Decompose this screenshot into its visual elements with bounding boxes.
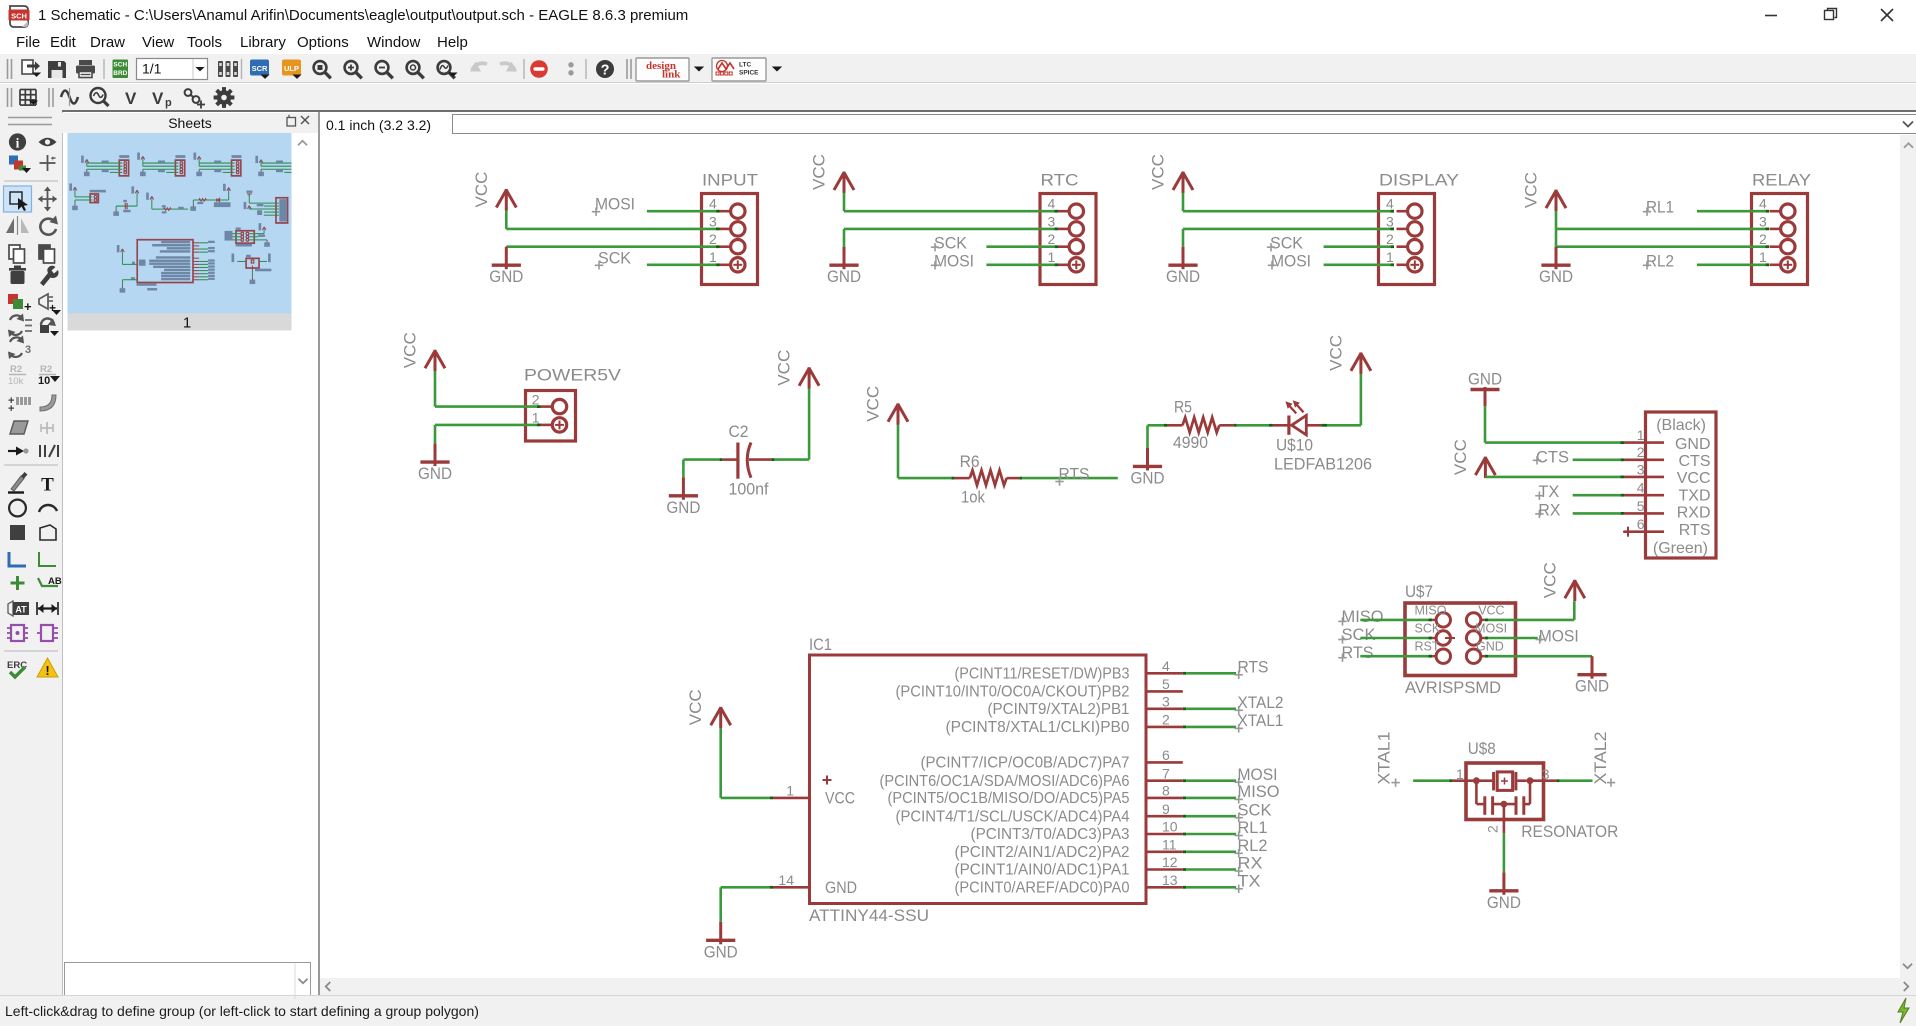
svg-text:1: 1	[709, 249, 717, 265]
svg-text:RX: RX	[1538, 500, 1560, 519]
svg-text:VCC: VCC	[1149, 154, 1168, 190]
svg-text:RST: RST	[1415, 640, 1440, 654]
svg-text:?: ?	[601, 63, 610, 79]
svg-text:GND: GND	[704, 942, 738, 961]
svg-text:12: 12	[1162, 854, 1178, 870]
svg-text:MOSI: MOSI	[595, 195, 635, 214]
svg-text:VCC: VCC	[1540, 562, 1559, 598]
svg-text:SCH: SCH	[113, 62, 127, 69]
svg-text:3: 3	[1386, 213, 1394, 229]
svg-text:AVRISPSMD: AVRISPSMD	[1405, 678, 1501, 697]
svg-text:(PCINT4/T1/SCL/USCK/ADC4)PA4: (PCINT4/T1/SCL/USCK/ADC4)PA4	[896, 808, 1130, 825]
svg-text:GND: GND	[1468, 369, 1502, 388]
svg-text:INPUT: INPUT	[702, 171, 758, 190]
svg-text:XTAL1: XTAL1	[1375, 732, 1394, 785]
svg-text:SCK: SCK	[1238, 800, 1273, 819]
svg-text:(PCINT11/RESET/DW)PB3: (PCINT11/RESET/DW)PB3	[955, 666, 1130, 683]
svg-text:4: 4	[1386, 196, 1394, 212]
svg-text:GND: GND	[825, 878, 857, 897]
svg-text:R5: R5	[1174, 398, 1192, 417]
svg-text:1: 1	[1759, 249, 1767, 265]
svg-text:XTAL1: XTAL1	[1238, 711, 1284, 730]
svg-text:RTS: RTS	[1059, 464, 1090, 483]
svg-text:R6: R6	[960, 452, 980, 471]
svg-text:SPICE: SPICE	[739, 70, 759, 77]
svg-text:1: 1	[532, 410, 540, 426]
svg-text:i: i	[16, 136, 20, 151]
svg-text:6: 6	[1637, 516, 1645, 532]
svg-text:RELAY: RELAY	[1752, 171, 1811, 190]
svg-text:GND: GND	[418, 464, 452, 483]
svg-text:(PCINT10/INT0/OC0A/CKOUT)PB2: (PCINT10/INT0/OC0A/CKOUT)PB2	[896, 684, 1130, 701]
svg-text:11: 11	[1162, 836, 1177, 852]
svg-text:5: 5	[1162, 676, 1170, 692]
svg-text:(PCINT8/XTAL1/CLKI)PB0: (PCINT8/XTAL1/CLKI)PB0	[946, 719, 1130, 736]
svg-text:RTS: RTS	[1342, 643, 1374, 662]
svg-text:link: link	[662, 69, 681, 81]
svg-text:9: 9	[1162, 801, 1170, 817]
svg-text:BRD: BRD	[113, 70, 127, 77]
svg-text:2: 2	[1162, 712, 1170, 728]
svg-text:ULP: ULP	[284, 64, 299, 73]
svg-text:MOSI: MOSI	[1539, 627, 1579, 646]
svg-text:XTAL2: XTAL2	[1591, 732, 1610, 785]
svg-text:VCC: VCC	[1326, 335, 1345, 371]
svg-text:GND: GND	[1487, 893, 1521, 912]
svg-text:LEDFAB1206: LEDFAB1206	[1274, 454, 1372, 473]
svg-text:RX: RX	[1238, 854, 1263, 873]
svg-text:VCC: VCC	[1478, 603, 1504, 617]
svg-text:MOSI: MOSI	[1475, 621, 1507, 635]
svg-text:4: 4	[1162, 658, 1170, 674]
svg-text:RTS: RTS	[1238, 658, 1269, 677]
svg-text:4: 4	[1048, 196, 1056, 212]
svg-text:13: 13	[1162, 872, 1178, 888]
svg-text:+: +	[51, 154, 56, 163]
svg-text:p: p	[165, 97, 172, 109]
svg-text:(Green): (Green)	[1653, 540, 1708, 557]
svg-text:TXD: TXD	[1679, 487, 1711, 504]
svg-text:4: 4	[1759, 196, 1767, 212]
svg-text:VCC: VCC	[1677, 470, 1711, 487]
svg-text:RL1: RL1	[1646, 197, 1674, 216]
svg-text:TX: TX	[1238, 872, 1261, 891]
svg-text:2: 2	[1759, 231, 1767, 247]
svg-text:7: 7	[1162, 765, 1170, 781]
svg-text:(PCINT7/ICP/OC0B/ADC7)PA7: (PCINT7/ICP/OC0B/ADC7)PA7	[921, 755, 1130, 772]
svg-text:RXD: RXD	[1677, 505, 1711, 522]
svg-text:U$10: U$10	[1276, 435, 1313, 454]
svg-text:GND: GND	[827, 267, 861, 286]
svg-text:VCC: VCC	[810, 154, 829, 190]
svg-text:1/1: 1/1	[142, 61, 162, 77]
svg-text:10k: 10k	[8, 376, 24, 387]
svg-text:!: !	[45, 663, 49, 678]
svg-text:VCC: VCC	[1451, 439, 1470, 475]
svg-text:R2: R2	[40, 364, 52, 375]
svg-text:3: 3	[25, 344, 31, 356]
svg-text:1: 1	[786, 783, 794, 799]
svg-text:2: 2	[1386, 231, 1394, 247]
svg-text:IC1: IC1	[809, 635, 832, 654]
svg-text:CTS: CTS	[1536, 447, 1569, 466]
svg-text:2: 2	[1637, 444, 1645, 460]
svg-text:SCK: SCK	[1415, 621, 1441, 635]
svg-text:1: 1	[1048, 249, 1056, 265]
svg-text:3: 3	[1162, 693, 1170, 709]
svg-text:RTC: RTC	[1041, 171, 1079, 190]
svg-text:AB: AB	[48, 576, 62, 587]
svg-text:MISO: MISO	[1415, 603, 1447, 617]
svg-text:V: V	[152, 89, 164, 108]
svg-text:ATTINY44-SSU: ATTINY44-SSU	[809, 906, 929, 925]
svg-text:T: T	[41, 475, 54, 496]
svg-text:(PCINT9/XTAL2)PB1: (PCINT9/XTAL2)PB1	[988, 701, 1130, 718]
svg-text:VCC: VCC	[472, 172, 491, 208]
svg-text:VCC: VCC	[686, 689, 705, 725]
svg-text:SCH: SCH	[11, 11, 27, 20]
svg-text:VCC: VCC	[864, 386, 883, 422]
svg-text:3: 3	[1759, 213, 1767, 229]
svg-text:4990: 4990	[1173, 433, 1208, 452]
svg-text:+: +	[24, 299, 32, 314]
svg-text:CTS: CTS	[1679, 453, 1711, 470]
svg-text:1: 1	[1386, 249, 1394, 265]
svg-text:(PCINT3/T0/ADC3)PA3: (PCINT3/T0/ADC3)PA3	[971, 826, 1130, 843]
svg-text:VCC: VCC	[401, 332, 420, 368]
svg-text:(PCINT6/OC1A/SDA/MOSI/ADC6)PA6: (PCINT6/OC1A/SDA/MOSI/ADC6)PA6	[880, 773, 1130, 790]
svg-text:2: 2	[1048, 231, 1056, 247]
svg-text:GND: GND	[1539, 267, 1573, 286]
svg-text:MISO: MISO	[1238, 782, 1280, 801]
svg-text:(PCINT1/AIN0/ADC1)PA1: (PCINT1/AIN0/ADC1)PA1	[955, 862, 1130, 879]
svg-text:U$7: U$7	[1405, 582, 1433, 601]
svg-text:2: 2	[532, 391, 540, 407]
svg-text:14: 14	[778, 872, 794, 888]
svg-text:1: 1	[1456, 766, 1464, 782]
svg-text:GND: GND	[1675, 436, 1711, 453]
svg-text:GND: GND	[1575, 677, 1609, 696]
svg-text:1: 1	[183, 315, 191, 332]
svg-text:10: 10	[1162, 819, 1178, 835]
svg-text:RTS: RTS	[1679, 522, 1711, 539]
svg-text:MOSI: MOSI	[1238, 765, 1278, 784]
svg-text:RL1: RL1	[1238, 818, 1268, 837]
svg-text:GND: GND	[489, 267, 523, 286]
svg-text:1: 1	[1637, 427, 1645, 443]
svg-text:LTC: LTC	[739, 62, 751, 69]
svg-text:100nf: 100nf	[729, 480, 769, 499]
svg-text:(PCINT5/OC1B/MISO/DO/ADC5)PA5: (PCINT5/OC1B/MISO/DO/ADC5)PA5	[888, 790, 1130, 807]
svg-text:+: +	[8, 403, 14, 415]
svg-text:C2: C2	[729, 422, 749, 441]
svg-text:RESONATOR: RESONATOR	[1521, 822, 1618, 841]
svg-text:XTAL2: XTAL2	[1238, 693, 1284, 712]
svg-text:(PCINT2/AIN1/ADC2)PA2: (PCINT2/AIN1/ADC2)PA2	[955, 844, 1130, 861]
svg-text:TX: TX	[1538, 482, 1559, 501]
svg-text:8: 8	[1162, 783, 1170, 799]
svg-text:(PCINT0/AREF/ADC0)PA0: (PCINT0/AREF/ADC0)PA0	[955, 880, 1130, 897]
svg-text:GND: GND	[1131, 468, 1165, 487]
svg-text:DISPLAY: DISPLAY	[1379, 171, 1459, 190]
svg-text:GND: GND	[1166, 267, 1200, 286]
svg-text:2: 2	[709, 231, 717, 247]
svg-text:SCK: SCK	[934, 233, 968, 252]
svg-text:(Black): (Black)	[1656, 417, 1706, 434]
svg-text:2: 2	[1485, 825, 1501, 833]
svg-text:VCC: VCC	[775, 350, 794, 386]
svg-text:U$8: U$8	[1468, 739, 1496, 758]
svg-text:6: 6	[1162, 747, 1170, 763]
svg-text:MOSI: MOSI	[934, 251, 974, 270]
svg-text:5: 5	[1637, 498, 1645, 514]
svg-text:GND: GND	[666, 498, 700, 517]
svg-text:R2: R2	[10, 364, 22, 375]
svg-text:1ok: 1ok	[961, 487, 985, 506]
svg-text:V: V	[125, 89, 137, 108]
svg-text:3: 3	[1048, 213, 1056, 229]
svg-text:10: 10	[38, 375, 50, 387]
svg-text:3: 3	[1542, 766, 1550, 782]
svg-text:AT: AT	[15, 605, 27, 615]
svg-text:RL2: RL2	[1646, 251, 1674, 270]
svg-text:SCK: SCK	[1342, 625, 1377, 644]
svg-text:SCR: SCR	[252, 64, 268, 73]
svg-text:SCK: SCK	[1270, 233, 1304, 252]
svg-text:POWER5V: POWER5V	[524, 366, 622, 385]
svg-text:4: 4	[1637, 480, 1645, 496]
svg-text:3: 3	[1637, 461, 1645, 477]
svg-text:GND: GND	[1476, 640, 1504, 654]
svg-text:MISO: MISO	[1342, 607, 1384, 626]
svg-text:4: 4	[709, 196, 717, 212]
svg-text:VCC: VCC	[825, 788, 855, 807]
svg-text:SCK: SCK	[598, 248, 632, 267]
svg-text:VCC: VCC	[1522, 172, 1541, 208]
svg-text:MOSI: MOSI	[1271, 251, 1311, 270]
svg-text:RL2: RL2	[1238, 836, 1268, 855]
svg-text:3: 3	[709, 213, 717, 229]
